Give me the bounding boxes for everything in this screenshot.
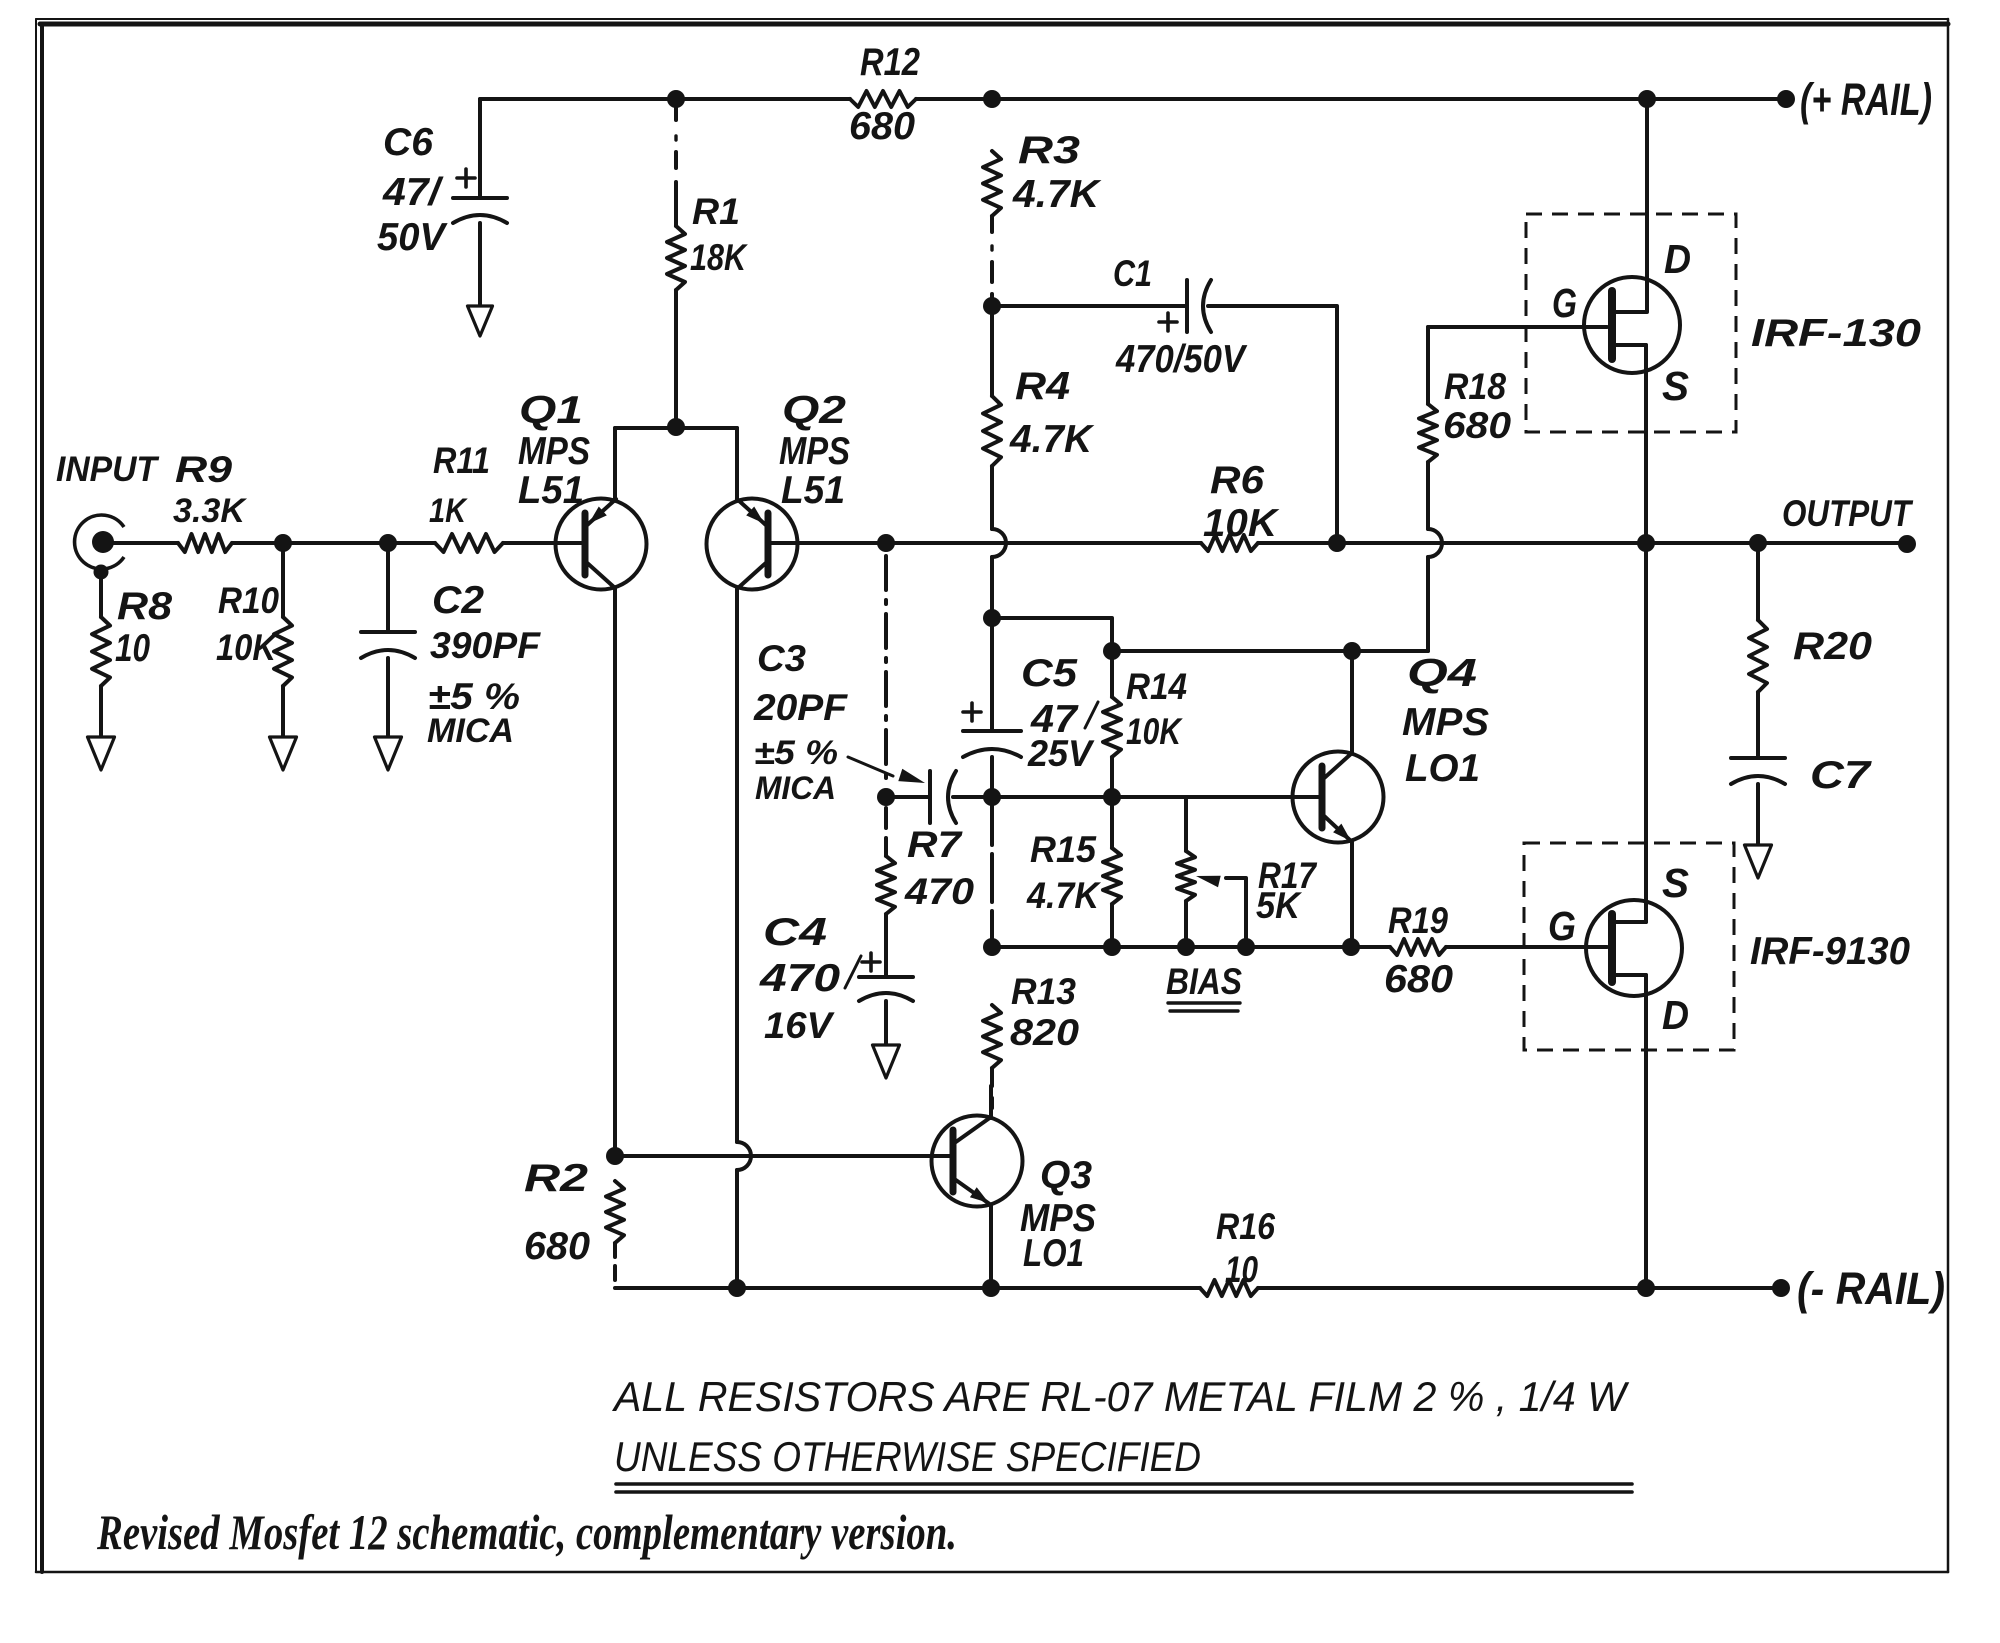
wire R8 bottom [99,686,103,737]
resistor R9 [173,449,248,552]
node -rail Q3 emitter [982,1279,1000,1297]
node base-row x992 [983,788,1001,806]
node C5 top [983,609,1001,627]
wire R14 row [1112,649,1352,653]
node on +rail at IRF-130 drain [1638,90,1656,108]
wire R9 to node [232,541,283,545]
svg-text:1K: 1K [429,492,469,530]
label (- RAIL) [1797,1263,1945,1314]
wire output run3 [1758,541,1907,545]
node C3 left [877,788,895,806]
transistor Q3 [932,1116,1097,1276]
svg-text:UNLESS OTHERWISE SPECIFIED: UNLESS OTHERWISE SPECIFIED [614,1433,1201,1480]
svg-text:D: D [1662,992,1689,1038]
resistor R13 [983,971,1080,1068]
wire R4 to hop [992,466,1006,618]
svg-text:18K: 18K [690,237,748,278]
capacitor C4 [759,911,913,1046]
wire Q3 base row [615,1154,950,1158]
svg-text:680: 680 [524,1225,590,1268]
wire output run1 [1337,541,1646,545]
wire R2 bottom (dashed) [613,1243,617,1288]
resistor R19 [1384,900,1453,1001]
svg-text:3.3K: 3.3K [173,492,248,530]
resistor R8 [92,585,172,686]
svg-text:MPS: MPS [1402,701,1489,744]
wire Q4 collector [1350,651,1354,753]
input jack [75,515,124,580]
ground C6 [468,306,493,336]
transistor Q1 [518,389,647,590]
mosfet U1 IRF-130 box [1526,214,1736,432]
wire IRF-130 drain [1645,99,1649,312]
svg-text:C6: C6 [383,121,433,164]
svg-text:C1: C1 [1113,253,1152,294]
svg-text:C5: C5 [1021,652,1079,695]
svg-text:IRF-130: IRF-130 [1751,312,1921,355]
wire bias line [992,945,1390,949]
terminal dot +rail [1777,90,1795,108]
ground C2 [375,737,402,770]
terminal dot OUTPUT [1898,535,1916,553]
wire Q4 emitter [1350,842,1354,947]
mosfet U2 IRF-9130 [1548,860,1910,1038]
wire -rail [615,1286,1781,1290]
note underline double [616,1484,1632,1492]
svg-text:20PF: 20PF [753,687,849,728]
node on +rail at R3 [983,90,1001,108]
wire R20 to C7 [1756,692,1760,756]
wire R7 top (dash) [884,808,888,838]
wire R18 top [1426,327,1430,404]
resistor R4 [983,365,1095,466]
note line 1 [611,1373,1630,1420]
wire Q3 emitter [989,1205,993,1288]
capacitor C3 [753,638,992,823]
svg-text:4.7K: 4.7K [1012,173,1102,216]
mosfet U1 IRF-130 [1552,236,1921,409]
ground R8 [88,737,115,770]
resistor R6 [1201,459,1280,551]
wire C5 bottom [990,757,994,797]
wire R11 to Q1 base [503,541,583,545]
svg-text:C7: C7 [1810,754,1873,797]
capacitor C2 [361,579,542,750]
wire R20 top [1756,543,1760,620]
svg-text:16V: 16V [764,1005,836,1046]
wire C2 bottom [386,658,390,737]
svg-text:ALL RESISTORS ARE RL-07 METAL: ALL RESISTORS ARE RL-07 METAL FILM 2 % ,… [611,1373,1630,1420]
wire node to node [283,541,388,545]
wire R6 to C1 node [1258,541,1337,545]
wire R1 upper (dash-dot) [674,99,678,226]
ground C7 [1745,845,1772,878]
svg-text:R7: R7 [907,824,963,865]
wire gate IRF-130 [1428,325,1607,329]
wire base row [992,795,1319,799]
resistor R11 [429,440,503,552]
svg-text:INPUT: INPUT [56,449,160,489]
terminal dot -rail [1772,1279,1790,1297]
resistor R20 [1749,620,1872,692]
note line 2 [614,1433,1201,1480]
wire R10 top [281,543,285,617]
resistor R14 [1103,666,1187,757]
node Q4 collector top [1343,642,1361,660]
svg-text:390PF: 390PF [430,625,542,666]
svg-text:L51: L51 [781,469,845,512]
node C3 branch top [877,534,895,552]
svg-text:10K: 10K [1126,711,1183,752]
R17 wiper arrow [1196,876,1246,947]
wire x992 to bias (broken) [990,797,994,947]
wire R1 lower [674,290,678,425]
label OUTPUT [1782,493,1913,534]
wire C4 bottom [884,1001,888,1045]
svg-text:10: 10 [1225,1249,1258,1290]
svg-text:4.7K: 4.7K [1009,418,1095,461]
wire node to R11 [388,541,435,545]
svg-text:5K: 5K [1256,885,1302,926]
svg-text:S: S [1662,363,1689,409]
node C2 top [379,534,397,552]
svg-text:Q4: Q4 [1407,652,1477,695]
wire Q3 collector [989,1086,993,1118]
capacitor C5 [963,652,1098,774]
svg-text:C3: C3 [757,638,806,679]
label (+ RAIL) [1800,74,1932,125]
svg-text:R9: R9 [175,449,233,490]
resistor R12 [849,41,920,148]
svg-text:680: 680 [1443,405,1512,446]
svg-text:MICA: MICA [755,770,836,806]
node C1 bottom [1328,534,1346,552]
svg-text:BIAS: BIAS [1166,961,1242,1002]
resistor R16 [1200,1206,1276,1296]
node R2 top [606,1147,624,1165]
resistor R18 [1419,366,1512,462]
wire Q2base-R6 seg2 [886,541,1201,545]
wire R14 link [1110,651,1114,797]
node on +rail at R1 [667,90,685,108]
wire Q2 collector down [737,589,751,1288]
svg-text:R10: R10 [218,580,280,621]
svg-text:10K: 10K [1203,502,1280,545]
node mosfet junction on output [1637,534,1655,552]
wire 618-row to R14 [992,618,1112,651]
wire R14row to R18 [1352,649,1428,653]
capacitor C7 [1731,754,1873,797]
wire output run2 [1646,541,1758,545]
wire C1 row left [992,304,1185,308]
wire diff-pair bracket [615,428,737,500]
svg-text:LO1: LO1 [1405,747,1480,790]
svg-text:R19: R19 [1388,900,1449,941]
svg-text:470/50V: 470/50V [1115,338,1248,381]
node R14 top [1103,642,1121,660]
svg-text:R1: R1 [692,191,740,232]
node R10 top [274,534,292,552]
wire input to R9 [113,541,178,545]
svg-text:C2: C2 [432,579,484,622]
wire C7 bottom [1756,784,1760,845]
node Q4 emitter bottom [1342,938,1360,956]
wire R3 lower dash-dot [990,216,994,300]
node -rail IRF-9130 drain [1637,1279,1655,1297]
svg-text:(+ RAIL): (+ RAIL) [1800,74,1932,125]
node C1 left [983,297,1001,315]
wire C3 branch dash-dot [884,556,888,784]
svg-text:50V: 50V [377,216,448,259]
node R20 top [1749,534,1767,552]
svg-text:Q2: Q2 [782,389,846,432]
svg-text:R12: R12 [860,41,920,84]
transistor Q2 [707,389,851,590]
svg-text:R8: R8 [117,585,172,628]
svg-text:R11: R11 [433,440,490,481]
capacitor C6 [377,121,507,259]
wire IRF-9130 drain [1644,975,1648,1288]
wire Q1 collector down [613,589,617,1156]
node diff-pair emitters [667,418,685,436]
C3 pointer arrow [848,757,925,783]
svg-text:470: 470 [759,957,841,1000]
transistor Q4 [1293,652,1490,843]
ground R10 [270,737,297,770]
label BIAS [1166,961,1242,1011]
svg-text:680: 680 [849,105,915,148]
svg-text:10K: 10K [216,627,278,668]
wire Q2 base to R6 [769,541,886,545]
wire C6 bottom [478,223,482,306]
wire C2 top [386,543,390,630]
resistor R7 [877,824,975,914]
wire C5 link [990,618,994,729]
svg-text:LO1: LO1 [1023,1232,1084,1275]
svg-text:Q1: Q1 [519,389,583,432]
wire R3-R4 link [990,306,994,396]
svg-text:680: 680 [1384,958,1453,1001]
wire R10 bottom [281,686,285,737]
resistor R15 [1026,797,1121,947]
svg-text:R20: R20 [1793,625,1872,668]
caption [96,1505,957,1560]
svg-text:±5 %: ±5 % [754,734,838,772]
svg-text:MPS: MPS [779,430,850,473]
resistor R3 [983,129,1102,216]
svg-text:S: S [1662,860,1689,906]
svg-text:47/: 47/ [382,171,444,214]
svg-text:(- RAIL): (- RAIL) [1797,1263,1945,1314]
ground C4 [873,1045,900,1078]
svg-text:IRF-9130: IRF-9130 [1750,930,1910,973]
svg-text:G: G [1552,280,1577,326]
node base-row R14/R15 [1103,788,1121,806]
svg-text:R15: R15 [1030,829,1097,870]
svg-text:L51: L51 [518,469,584,512]
svg-text:R4: R4 [1015,365,1070,408]
svg-text:4.7K: 4.7K [1026,875,1101,916]
wire IRF-9130 source [1644,543,1648,922]
svg-text:820: 820 [1010,1012,1080,1053]
potentiometer R17 [1177,797,1317,947]
svg-text:G: G [1548,903,1576,949]
svg-text:470: 470 [904,871,975,912]
svg-text:D: D [1664,236,1691,282]
node bias x992 [983,938,1001,956]
svg-text:Q3: Q3 [1040,1154,1092,1197]
wire C1 row right + drop [1208,306,1337,543]
mosfet U2 IRF-9130 box [1524,843,1734,1050]
node R17 wiper return [1237,938,1255,956]
wire IRF-130 source [1644,345,1648,543]
svg-text:R2: R2 [524,1157,588,1200]
svg-text:Revised Mosfet 12 schematic, c: Revised Mosfet 12 schematic, complementa… [96,1505,957,1560]
svg-text:MPS: MPS [518,430,590,473]
svg-text:R13: R13 [1011,971,1076,1012]
svg-text:C4: C4 [763,911,827,954]
wire C6 top [478,99,482,196]
node R17 bottom [1177,938,1195,956]
wire R18 bottom [1428,462,1442,651]
svg-text:R14: R14 [1126,666,1187,707]
svg-text:R3: R3 [1018,129,1080,172]
wire +rail (y=99) [480,97,1786,101]
svg-text:OUTPUT: OUTPUT [1782,493,1913,534]
svg-text:±5 %: ±5 % [428,676,520,717]
resistor R1 [667,191,748,290]
svg-text:R16: R16 [1216,1206,1276,1247]
wire R7 to C4 [884,914,888,975]
svg-text:10: 10 [115,627,150,670]
svg-text:R6: R6 [1210,459,1264,502]
resistor R10 [216,580,292,686]
wire R13 to Q3 (dashes) [990,1068,994,1116]
svg-text:MICA: MICA [427,712,514,750]
node -rail Q2 collector [728,1279,746,1297]
wire R8 top [99,578,103,617]
svg-text:R18: R18 [1444,366,1507,407]
label INPUT [56,449,160,489]
capacitor C1 [1113,253,1248,381]
node bias R15 [1103,938,1121,956]
resistor R2 [524,1157,624,1268]
wire R19 to gate [1446,945,1607,949]
svg-text:25V: 25V [1027,733,1095,774]
